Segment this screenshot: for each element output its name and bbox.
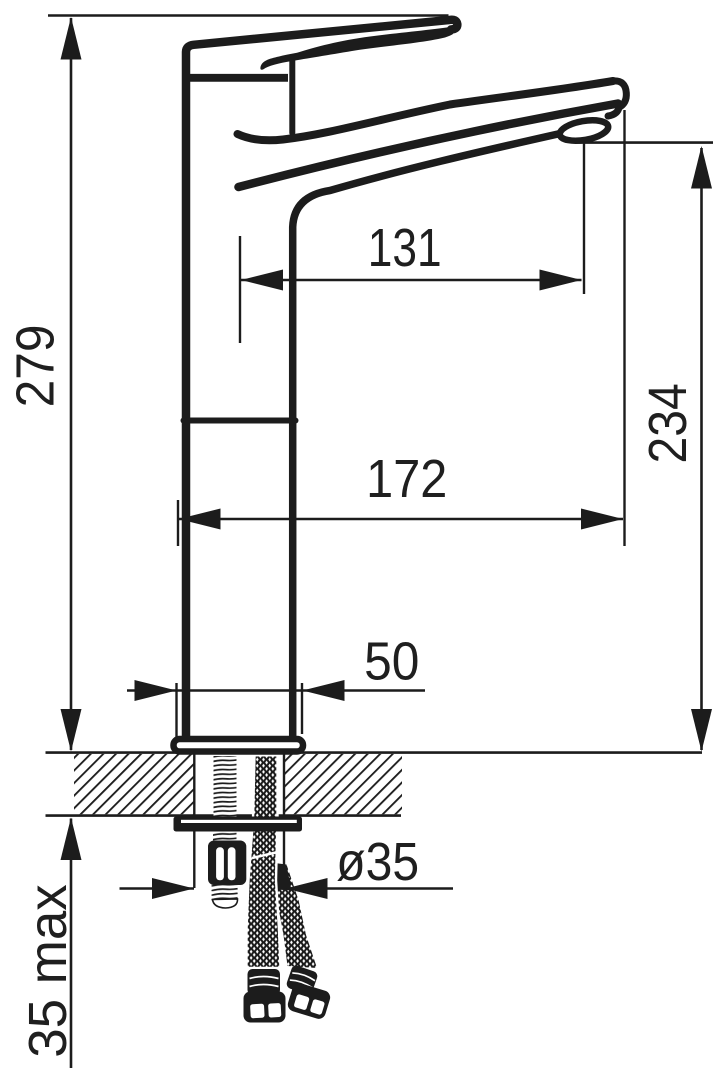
aerator: [558, 117, 610, 144]
threaded stud lower section: [212, 885, 239, 902]
threaded stud upper section: [214, 756, 237, 817]
neck rear edge: [289, 58, 295, 134]
threaded stud mid section: [213, 832, 237, 842]
hose 1 (left, braided): [247, 755, 281, 968]
counter bottom line: [46, 814, 402, 817]
hex nut hose 2: [286, 981, 332, 1020]
spout top edge: [238, 81, 614, 140]
handle underside and curl (tapered wedge): [260, 27, 453, 70]
body left edge + handle top edge + handle tip: [186, 20, 457, 736]
234 dimension: [576, 141, 714, 144]
top extension line: [48, 14, 449, 17]
svg-text:131: 131: [368, 218, 442, 278]
counter hatch right of hole: [284, 754, 402, 814]
body joint line: [184, 418, 296, 424]
svg-text:172: 172: [366, 448, 447, 509]
spout mid contour: [239, 104, 619, 188]
svg-text:ø35: ø35: [336, 831, 419, 891]
mounting nut on stud: [208, 841, 246, 886]
base flange: [174, 739, 304, 752]
svg-text:35 max: 35 max: [19, 884, 79, 1058]
spout tip cap: [608, 81, 626, 116]
svg-text:50: 50: [364, 631, 419, 691]
stud bottom tip: [213, 899, 238, 908]
svg-text:279: 279: [5, 324, 65, 407]
cartridge collar bar: [183, 74, 288, 82]
counter surface line: [46, 751, 703, 754]
ferrule hose 2: [285, 964, 318, 995]
hose 1 bend notch: [252, 852, 278, 858]
spout bottom edge + body right edge: [293, 134, 558, 736]
hose 2 (right, braided): [271, 864, 317, 968]
hose 2 top solid fitting: [271, 863, 292, 891]
ferrule hose 1: [248, 969, 281, 995]
hole left edge line: [193, 754, 195, 888]
hole right edge line: [283, 754, 285, 869]
279 dimension line: [70, 18, 73, 750]
counter hatch left of hole: [74, 754, 194, 814]
mounting plate under counter: [174, 817, 303, 832]
35 max dimension: [70, 819, 73, 1069]
ø35 dimension: [120, 887, 195, 890]
131 dimension: [239, 236, 241, 343]
hex nut hose 1: [244, 992, 286, 1023]
svg-text:234: 234: [637, 383, 697, 463]
172 dimension: [177, 500, 179, 546]
50 dimension: [175, 683, 177, 753]
